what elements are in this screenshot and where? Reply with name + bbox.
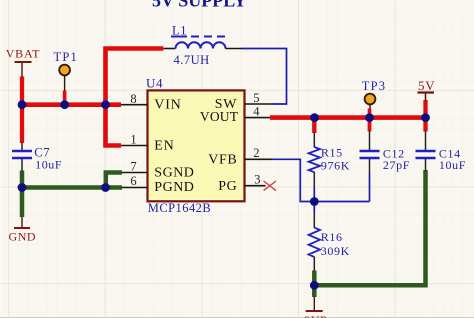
svg-text:VOUT: VOUT bbox=[200, 109, 239, 124]
wire C14 ground run bbox=[314, 170, 425, 285]
wire main VIN bus bbox=[22, 102, 121, 107]
pin 1 EN bbox=[121, 133, 175, 154]
svg-text:2: 2 bbox=[253, 146, 259, 160]
pin 3 PG bbox=[218, 173, 265, 194]
pin 6 PGND bbox=[122, 174, 194, 195]
wire SW net blue bbox=[242, 49, 287, 105]
test point TP1 bbox=[54, 50, 78, 91]
op IC U4 MCP1642B bbox=[146, 76, 245, 215]
wire riser to inductor bbox=[106, 49, 164, 105]
pin 5 SW bbox=[215, 91, 271, 112]
sheet edge shading bbox=[0, 0, 2, 318]
svg-text:976K: 976K bbox=[321, 159, 350, 173]
wire C12 stub bbox=[368, 118, 372, 132]
pin 4 VOUT bbox=[200, 104, 270, 124]
svg-text:8: 8 bbox=[130, 92, 136, 106]
junction 5V/C14 bbox=[421, 113, 430, 122]
junction VBAT/C7 bbox=[18, 100, 27, 109]
svg-text:27pF: 27pF bbox=[383, 158, 410, 172]
svg-text:5V: 5V bbox=[418, 78, 436, 93]
svg-text:MCP1642B: MCP1642B bbox=[148, 201, 211, 215]
svg-text:SGND: SGND bbox=[154, 165, 194, 180]
svg-text:5: 5 bbox=[253, 91, 259, 105]
svg-text:4.7UH: 4.7UH bbox=[174, 53, 210, 67]
svg-text:L1: L1 bbox=[172, 23, 187, 37]
power port VBAT bbox=[6, 47, 41, 77]
svg-text:U4: U4 bbox=[146, 76, 163, 91]
wire C12 bottom lead bbox=[369, 159, 371, 174]
junction C7 ground bbox=[18, 183, 27, 192]
wire TP1 stub bbox=[63, 91, 67, 105]
svg-text:1: 1 bbox=[130, 133, 136, 147]
svg-text:VFB: VFB bbox=[208, 152, 237, 167]
inductor L1 bbox=[163, 23, 242, 67]
svg-text:SUP: SUP bbox=[304, 313, 328, 318]
wire VBAT vertical bbox=[20, 77, 24, 105]
svg-text:10uF: 10uF bbox=[35, 157, 62, 171]
resistor R16 bbox=[309, 202, 350, 272]
svg-text:6: 6 bbox=[130, 174, 136, 188]
resistor R15 bbox=[309, 133, 350, 202]
svg-text:PGND: PGND bbox=[154, 180, 194, 195]
svg-text:3: 3 bbox=[254, 173, 260, 187]
svg-text:TP1: TP1 bbox=[54, 50, 78, 64]
svg-text:EN: EN bbox=[154, 138, 174, 153]
junction R15 top bbox=[310, 113, 319, 122]
pin 8 VIN bbox=[121, 92, 182, 113]
svg-text:7: 7 bbox=[130, 159, 136, 173]
wire VFB net blue bbox=[272, 159, 370, 201]
junction VIN riser bbox=[101, 100, 110, 109]
wire EN branch bbox=[106, 105, 122, 146]
junction VFB divider bbox=[310, 197, 319, 206]
svg-text:VIN: VIN bbox=[154, 98, 181, 113]
junction R16 ground bbox=[310, 281, 319, 290]
wire VOUT bus bbox=[270, 115, 426, 120]
wire green ground bus bbox=[22, 185, 122, 190]
svg-text:5V SUPPLY: 5V SUPPLY bbox=[152, 0, 247, 10]
wire 5V drop and C14 stub bbox=[423, 100, 427, 132]
svg-text:VBAT: VBAT bbox=[6, 47, 41, 61]
svg-text:R16: R16 bbox=[321, 230, 343, 244]
capacitor C14 bbox=[416, 131, 466, 172]
pin 7 SGND bbox=[122, 159, 194, 180]
capacitor C7 bbox=[12, 143, 62, 172]
wire R16 bottom green bbox=[312, 271, 317, 298]
power port 5V bbox=[418, 78, 436, 101]
wire SGND branch bbox=[106, 173, 122, 188]
wire TP3 stub bbox=[368, 109, 372, 118]
svg-text:4: 4 bbox=[253, 104, 260, 118]
wire C7 stub bbox=[20, 105, 24, 143]
wire R15 stub bbox=[312, 118, 316, 133]
power port SUP (clipped at bottom) bbox=[304, 297, 328, 318]
power port GND bbox=[9, 217, 37, 244]
wire C7 bottom green bbox=[20, 171, 25, 218]
svg-text:PG: PG bbox=[218, 179, 237, 194]
test point TP3 bbox=[362, 79, 386, 109]
svg-text:TP3: TP3 bbox=[362, 79, 386, 93]
capacitor C12 bbox=[360, 131, 410, 172]
svg-text:10uF: 10uF bbox=[439, 158, 466, 172]
svg-text:R15: R15 bbox=[321, 146, 343, 160]
pin 2 VFB bbox=[208, 146, 271, 167]
junction TP1 bbox=[60, 100, 69, 109]
no-connect X on pin 3 bbox=[264, 181, 276, 191]
junction ground bus bbox=[101, 183, 110, 192]
svg-text:309K: 309K bbox=[321, 244, 350, 258]
svg-text:GND: GND bbox=[9, 230, 37, 244]
junction TP3/C12 bbox=[365, 113, 374, 122]
